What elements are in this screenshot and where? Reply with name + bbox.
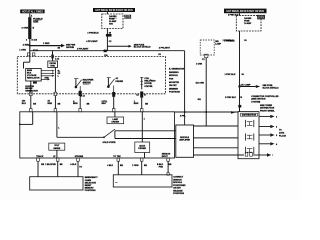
wire indicator drop — [205, 58, 207, 126]
wire 2 BLK/PNK — [45, 161, 63, 177]
svg-text:2 BLK/PNK: 2 BLK/PNK — [45, 164, 56, 166]
wire regulator output F — [41, 70, 52, 72]
bus arrow into relay center — [231, 111, 235, 114]
module amplifier A1 — [176, 125, 194, 157]
svg-text:SYSTEM): SYSTEM) — [251, 101, 260, 103]
svg-text:SENSOR: SENSOR — [173, 179, 182, 181]
svg-text:BLOCK DETAILS: BLOCK DETAILS — [134, 46, 151, 49]
svg-text:DRIVER: DRIVER — [112, 121, 120, 123]
node relay feed — [238, 105, 241, 108]
splice S218 — [106, 34, 112, 37]
wire amp out 3 — [194, 147, 239, 149]
svg-text:STATOR: STATOR — [144, 85, 152, 88]
svg-text:2 RED: 2 RED — [23, 44, 30, 46]
svg-text:BRN: BRN — [48, 103, 53, 105]
svg-text:(SEE IGNITION: (SEE IGNITION — [251, 99, 266, 101]
power feed label HOT AT ALL TIMES — [20, 10, 44, 14]
relay center header — [241, 113, 258, 117]
fuse GAGES 10 AMP — [109, 15, 117, 26]
pin D (lamp) — [112, 92, 115, 97]
svg-text:BLOCK: BLOCK — [124, 17, 131, 19]
svg-text:DISTRIB: DISTRIB — [66, 47, 75, 49]
connector C1 pins at enclosure top — [27, 53, 35, 56]
svg-text:1 ORN: 1 ORN — [19, 49, 26, 51]
svg-text:MEMBER: MEMBER — [169, 88, 178, 90]
wire 2 ORN — [132, 161, 147, 175]
wire 4 BLK — [107, 161, 123, 175]
svg-text:BLOCK: BLOCK — [258, 18, 265, 20]
label 4 PPL/WHT C2 — [86, 40, 112, 43]
pin labels B+ DF L — [58, 71, 61, 78]
svg-text:SOLID STATE: SOLID STATE — [103, 141, 117, 144]
wire ign right feed — [239, 13, 241, 15]
fuse block label right — [257, 15, 265, 20]
fuse block (dashed) with GAGES fuse — [102, 14, 123, 29]
svg-text:GAGES: GAGES — [109, 15, 117, 18]
svg-text:DRIVER: DRIVER — [116, 81, 124, 83]
svg-text:MOUNTED: MOUNTED — [169, 82, 180, 84]
svg-text:BRN: BRN — [73, 103, 78, 105]
svg-text:4 PPL/WHT: 4 PPL/WHT — [86, 40, 98, 43]
wire regulator ground arrow — [41, 77, 50, 80]
wire diode trio to stator bus — [54, 68, 56, 93]
wire amp out 1 — [194, 125, 239, 127]
relay K3 — [245, 147, 253, 154]
svg-text:4 PPL/WHT: 4 PPL/WHT — [77, 47, 89, 50]
node regulator ground stud — [31, 81, 37, 92]
fuse block label — [124, 15, 131, 19]
svg-text:2 ORN: 2 ORN — [22, 27, 29, 29]
wire driver to amplifier — [115, 138, 176, 140]
svg-text:4 BLK: 4 BLK — [107, 164, 113, 167]
svg-text:SENSE: SENSE — [53, 148, 60, 150]
svg-text:PNK: PNK — [159, 166, 164, 168]
internal corner block — [19, 112, 33, 126]
wire 1 PNK/BLK 39 — [223, 31, 248, 112]
quad driver module — [135, 142, 150, 153]
wire 150 BLK — [22, 96, 37, 109]
wire 1 BRN stator — [134, 98, 149, 109]
svg-text:TRIO: TRIO — [50, 65, 55, 67]
ground bus box — [30, 177, 83, 190]
svg-text:POSITIONS: POSITIONS — [169, 92, 181, 94]
wire into relay center top — [239, 108, 241, 112]
power feed label HOT W/IGN SW (right) — [224, 9, 267, 14]
svg-text:S 210: S 210 — [31, 40, 37, 42]
note distributor module — [173, 177, 186, 196]
svg-text:GRD: GRD — [44, 77, 49, 79]
rectifier diode CR1 — [74, 79, 94, 92]
pin labels at enclosure bottom — [81, 95, 147, 98]
wire sense internal — [57, 112, 104, 138]
wire ground 1 — [38, 161, 45, 177]
relay center box — [238, 112, 259, 159]
output arrow 3 — [259, 133, 278, 137]
svg-text:INPUT: INPUT — [162, 156, 169, 158]
wire B BLK/PNK — [157, 161, 172, 173]
junction block JB1 — [107, 112, 124, 124]
svg-text:1 PNK/BLK: 1 PNK/BLK — [223, 40, 234, 42]
svg-text:IGN: IGN — [109, 23, 113, 25]
node S220 — [238, 85, 240, 87]
svg-text:FRONT WHEEL: FRONT WHEEL — [260, 110, 275, 112]
wire regulator output L — [41, 75, 52, 77]
svg-text:4 PPL: 4 PPL — [180, 115, 186, 118]
relay K1 — [245, 120, 253, 127]
fuse block right (dashed) — [236, 15, 261, 31]
svg-text:DRIVER: DRIVER — [138, 148, 146, 150]
output arrow 4 — [259, 142, 278, 146]
pin at dist box top — [167, 173, 169, 175]
generator label — [25, 86, 38, 93]
svg-text:E. GENERATOR: E. GENERATOR — [169, 68, 185, 71]
svg-text:CABIN: CABIN — [85, 179, 92, 182]
svg-text:MODULE: MODULE — [180, 137, 189, 139]
svg-text:DISTRIBUTION: DISTRIBUTION — [242, 115, 257, 117]
wire arrow A/C compressor — [240, 84, 261, 88]
node C20 junction — [104, 50, 109, 58]
wire bus ECM to relay center — [175, 111, 239, 113]
wire BAT terminal into regulator — [24, 56, 30, 68]
svg-text:REGULATOR: REGULATOR — [27, 76, 40, 79]
wire ign feed through fuse — [106, 12, 108, 14]
diode trio D1 — [48, 61, 58, 68]
svg-text:451 ORN: 451 ORN — [196, 81, 205, 84]
svg-text:DATA: DATA — [279, 132, 285, 135]
label sensor input — [162, 154, 171, 158]
svg-text:HOT W/IGN, SW IN START OR RUN: HOT W/IGN, SW IN START OR RUN — [95, 9, 133, 12]
output arrow 2 — [259, 125, 278, 129]
wire 4 PPL/WHT horizontal run — [30, 50, 185, 52]
svg-text:AMPLIFIER: AMPLIFIER — [179, 139, 190, 142]
svg-text:10 AMP: 10 AMP — [244, 22, 252, 25]
svg-text:RELEASE: RELEASE — [173, 189, 183, 192]
svg-text:POSITIONS: POSITIONS — [85, 190, 97, 192]
ECM bottom pin names — [36, 155, 121, 158]
svg-text:1 PNK BLK: 1 PNK BLK — [225, 74, 236, 76]
svg-text:TO: TO — [79, 166, 82, 168]
connector pins at ECM bottom — [37, 158, 170, 161]
note see power distribution top — [260, 105, 275, 112]
note emergency cabin — [85, 177, 99, 192]
ECM module box — [20, 112, 175, 158]
pin C (output) — [79, 91, 82, 96]
svg-text:2 ORN: 2 ORN — [132, 165, 139, 167]
svg-text:1 RED: 1 RED — [43, 43, 50, 45]
svg-text:A BLK: A BLK — [70, 163, 77, 166]
svg-text:LAMP: LAMP — [215, 42, 221, 45]
svg-text:BRN: BRN — [134, 103, 139, 105]
svg-text:DISTRIBUTION: DISTRIBUTION — [260, 108, 275, 110]
svg-text:1 PNK/BLK: 1 PNK/BLK — [87, 32, 99, 34]
label see fuse block details — [134, 44, 151, 48]
pin B (sense) — [54, 92, 57, 95]
wire switch to amplifier — [115, 130, 176, 132]
wire 4 BRN — [73, 96, 90, 109]
svg-text:WHT: WHT — [102, 103, 107, 105]
tee from 4 PPL/WHT run to diode trio — [51, 51, 60, 61]
power feed label HOT W/IGN SW IN RUN — [93, 8, 135, 12]
svg-text:POSITIONS: POSITIONS — [173, 193, 185, 195]
svg-text:SEE POWER: SEE POWER — [260, 105, 273, 107]
wire A BLK — [70, 161, 82, 177]
switch S1 (solid state) — [103, 129, 115, 138]
svg-text:2 PNK BLK: 2 PNK BLK — [225, 97, 236, 99]
generator case note — [169, 68, 185, 94]
label 2 PNK BLK C6 — [225, 97, 243, 99]
svg-text:MODULE: MODULE — [169, 75, 178, 77]
svg-text:A/C COMP: A/C COMP — [241, 84, 252, 87]
wire quad driver to ground — [144, 153, 146, 159]
comparator block — [49, 143, 65, 158]
pin E (stator) — [140, 91, 143, 97]
label see fuse block details right — [263, 85, 280, 90]
wire lamp feed internal — [142, 112, 145, 142]
fuse GAGES right — [244, 17, 252, 25]
wire regulator output R — [41, 72, 52, 74]
note connector controlled — [251, 96, 279, 104]
output arrow 1 — [259, 115, 278, 119]
svg-text:PLACE: PLACE — [279, 134, 286, 137]
svg-text:POSITIONED: POSITIONED — [173, 185, 186, 187]
label see power distribution — [66, 44, 76, 48]
charge indicator driver CR2 — [107, 77, 124, 92]
wire 25 BRN — [48, 96, 61, 109]
pin A (ground) — [29, 92, 32, 95]
wire corner down to module — [184, 51, 186, 113]
wire 2 PPL/WHT — [102, 96, 114, 109]
svg-text:CONNECT: CONNECT — [173, 177, 184, 179]
svg-text:ON KEY: ON KEY — [173, 188, 181, 190]
warning indicator (dashed) — [200, 40, 214, 58]
wire arrow to fuse block details (right) — [107, 45, 131, 48]
wire battery feed to fusible link — [30, 13, 33, 17]
wire 1 RED arrow to fuse block details — [31, 43, 66, 47]
generator enclosure (dashed) — [17, 57, 165, 94]
svg-text:FOR: FOR — [169, 79, 174, 81]
svg-text:BLOCK DETAILS: BLOCK DETAILS — [263, 87, 280, 90]
svg-text:ON KEY: ON KEY — [169, 85, 177, 87]
svg-text:10 AMP: 10 AMP — [109, 20, 117, 23]
svg-text:TO: TO — [279, 130, 282, 132]
svg-text:QUAD: QUAD — [139, 144, 145, 147]
node S210 junction — [29, 45, 31, 47]
svg-text:1 ORN: 1 ORN — [196, 63, 203, 65]
svg-text:BLK: BLK — [22, 103, 27, 105]
wire amp out 2 — [194, 137, 239, 139]
voltage regulator U1 — [26, 69, 42, 82]
svg-text:HOT AT ALL TIMES: HOT AT ALL TIMES — [22, 11, 43, 14]
output arrow 5 (bottom) — [245, 153, 273, 157]
svg-text:CONNECTOR CONTROLLED: CONNECTOR CONTROLLED — [251, 96, 279, 98]
relay K2 — [245, 133, 253, 140]
svg-text:MODULE: MODULE — [173, 182, 182, 184]
svg-text:HOT W/IGN, SW IN START OR RUN: HOT W/IGN, SW IN START OR RUN — [227, 10, 265, 13]
distributor box — [113, 175, 172, 187]
svg-text:WARNING: WARNING — [169, 71, 179, 74]
node bus junction 1 — [184, 111, 186, 113]
label indicator — [202, 41, 222, 61]
connector pins at ECM top — [30, 109, 144, 112]
wire 2 RED from fusible link to splice S210 — [19, 39, 39, 56]
svg-text:4 PPL/WHT: 4 PPL/WHT — [159, 47, 171, 50]
stator winding L1 — [140, 77, 156, 89]
generator internal labels — [150, 80, 152, 88]
label to fuse panel — [279, 130, 286, 138]
wire amp out 4 (bottom) — [194, 154, 245, 156]
fusible link F1 — [22, 17, 44, 39]
